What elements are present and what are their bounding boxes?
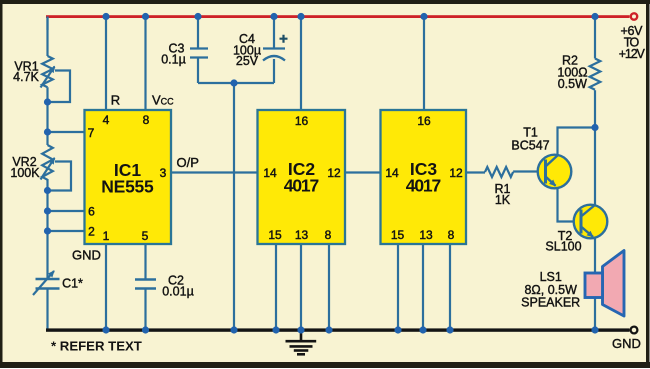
svg-text:4: 4 [103, 113, 110, 127]
svg-text:6: 6 [88, 205, 95, 219]
svg-text:5: 5 [142, 229, 149, 243]
svg-text:12: 12 [449, 166, 463, 180]
svg-text:12: 12 [327, 166, 341, 180]
svg-text:4.7K: 4.7K [13, 70, 39, 84]
svg-text:4017: 4017 [406, 176, 442, 196]
svg-text:R: R [111, 92, 120, 107]
svg-text:7: 7 [88, 126, 95, 140]
svg-text:BC547: BC547 [511, 139, 549, 153]
svg-text:GND: GND [612, 336, 641, 351]
svg-text:SPEAKER: SPEAKER [521, 295, 580, 309]
svg-text:* REFER TEXT: * REFER TEXT [51, 339, 142, 354]
svg-text:O/P: O/P [176, 155, 198, 170]
svg-text:0.5W: 0.5W [558, 77, 587, 91]
svg-text:1: 1 [103, 229, 110, 243]
svg-text:0.01µ: 0.01µ [162, 285, 194, 299]
svg-text:15: 15 [268, 228, 282, 242]
svg-text:14: 14 [385, 166, 399, 180]
svg-text:T1: T1 [523, 126, 538, 140]
svg-text:GND: GND [72, 248, 101, 263]
svg-text:14: 14 [263, 166, 277, 180]
svg-text:100K: 100K [10, 166, 40, 180]
svg-text:15: 15 [391, 228, 405, 242]
svg-text:8: 8 [448, 228, 455, 242]
svg-text:13: 13 [419, 228, 433, 242]
svg-text:16: 16 [417, 114, 431, 128]
svg-text:0.1µ: 0.1µ [161, 53, 186, 67]
svg-text:8: 8 [325, 228, 332, 242]
svg-text:NE555: NE555 [101, 177, 154, 197]
svg-text:25V: 25V [236, 54, 259, 68]
svg-text:13: 13 [295, 228, 309, 242]
svg-text:16: 16 [295, 114, 309, 128]
svg-text:1K: 1K [495, 193, 511, 207]
svg-text:4017: 4017 [284, 176, 320, 196]
svg-text:C1*: C1* [62, 277, 83, 291]
svg-text:3: 3 [160, 166, 167, 180]
svg-text:2: 2 [88, 225, 95, 239]
svg-text:SL100: SL100 [545, 240, 581, 254]
svg-text:+12V: +12V [619, 47, 646, 61]
svg-text:8: 8 [143, 113, 150, 127]
